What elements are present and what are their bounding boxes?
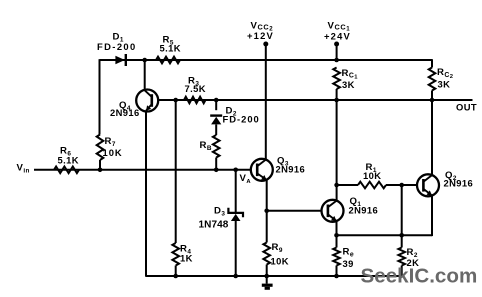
wire R9 bottom to rail	[266, 265, 268, 277]
label RC1	[342, 68, 359, 81]
wire RC1 bottom through OUT to R1 node and Q1 collector	[336, 89, 338, 200]
terminal Vcc1 +24V	[334, 42, 339, 47]
label D1	[113, 32, 124, 44]
label Vin	[17, 162, 30, 174]
wire top +24V rail	[100, 59, 433, 61]
wire Q3 emitter to Q1 base	[267, 210, 322, 212]
svg-text:2N916: 2N916	[276, 164, 306, 175]
junction R1 left / Q1 collector	[334, 183, 339, 188]
resistor RC2 3K	[429, 68, 436, 91]
junction R9 / ground on rail	[264, 274, 269, 279]
diode D1 FD-200	[115, 54, 125, 66]
junction R4 bottom rail	[173, 274, 178, 279]
wire D2 to R8	[215, 125, 217, 136]
wire RC2 bottom to OUT node	[431, 91, 433, 101]
wire D3 anode to bottom rail	[235, 221, 237, 276]
junction Re bottom rail	[334, 274, 339, 279]
transistor Q3 2N916	[251, 159, 273, 181]
junction OUT at Q2 collector	[430, 98, 435, 103]
wire R4 bottom to rail	[175, 266, 177, 277]
wire Q3 emitter lead	[266, 180, 268, 211]
svg-text:10K: 10K	[363, 170, 381, 181]
wire Re bottom to rail	[336, 266, 338, 277]
junction D2 on OUT line	[214, 98, 219, 103]
svg-text:10K: 10K	[103, 147, 123, 158]
resistor R3 7.5K	[184, 97, 206, 104]
label OUT	[456, 101, 477, 112]
svg-text:3K: 3K	[438, 79, 451, 90]
transistor Q1 2N916	[322, 200, 344, 222]
resistor R6 5.1K	[54, 167, 79, 174]
junction D1 cathode / Q4 collector / R5	[142, 58, 147, 63]
resistor R5 5.1K	[156, 57, 180, 64]
label R2	[407, 247, 418, 259]
wire R1 right to Q2 base	[386, 184, 417, 186]
label 2N916 (Q2)	[444, 178, 474, 189]
label R3	[188, 76, 199, 88]
resistor R2 2K	[398, 248, 405, 266]
wire OUT line (Q4 base to output)	[158, 99, 473, 101]
resistor RC1 3K	[333, 68, 340, 90]
junction Q1 emitter / emitter line	[334, 233, 339, 238]
zener diode D3 1N748	[228, 208, 243, 221]
svg-text:1K: 1K	[180, 252, 193, 263]
label 2N916 (Q1)	[349, 204, 379, 215]
wire R1 left lead	[337, 184, 358, 186]
junction Q3 emitter / Q1 base / R9	[264, 209, 269, 214]
svg-text:OUT: OUT	[456, 101, 477, 112]
wire Q2 collector lead	[431, 100, 433, 174]
wire RC2 top corner	[431, 59, 433, 67]
junction R2 on emitter line	[399, 233, 404, 238]
svg-text:+12V: +12V	[247, 30, 274, 41]
label 5.1K (R6)	[58, 154, 79, 165]
label 7.5K (R3)	[185, 83, 206, 94]
wire Q1/Q2 emitter line	[336, 234, 432, 236]
label R9	[272, 242, 283, 254]
label D2	[226, 106, 237, 118]
wire D2 anode drop	[215, 100, 217, 110]
label VA	[240, 173, 252, 185]
wire Q4 collector lead	[144, 60, 146, 91]
wire Q1 emitter lead	[336, 221, 338, 235]
junction VA node	[233, 168, 238, 173]
svg-text:39: 39	[343, 258, 354, 269]
label Q1	[350, 196, 362, 208]
wire Vin line	[34, 169, 251, 171]
resistor R1 10K	[358, 182, 386, 189]
svg-text:2N916: 2N916	[349, 204, 379, 215]
label RC2	[437, 67, 453, 80]
label Q2	[445, 170, 457, 182]
label 2K (R2)	[407, 257, 420, 268]
label 10K (R7)	[103, 147, 123, 158]
wire R1 node down to emitter line	[401, 185, 403, 248]
svg-text:1N748: 1N748	[199, 220, 229, 231]
label Q3	[277, 155, 289, 167]
label RB	[200, 140, 212, 152]
label 2N916 (Q3)	[276, 164, 306, 175]
terminal Vcc2 +12V	[263, 42, 268, 47]
wire Q2 emitter down	[431, 196, 433, 236]
label 1N748 (D3)	[199, 220, 229, 231]
label 3K (RC2)	[438, 79, 451, 90]
wire Q4 emitter to bottom rail	[145, 111, 147, 277]
junction Q4 base / R4	[173, 98, 178, 103]
svg-text:SeekIC.com: SeekIC.com	[361, 265, 478, 288]
transistor Q4 2N916	[136, 90, 158, 112]
wire R7 bottom to Vin node	[99, 160, 101, 171]
resistor Re 39	[333, 248, 340, 266]
ground	[262, 276, 273, 288]
wire Vcc1 stub	[336, 44, 338, 60]
transistor Q2 2N916	[417, 174, 439, 196]
resistor R7 10K	[97, 135, 104, 161]
svg-text:FD-200: FD-200	[223, 113, 260, 124]
label 39 (Re)	[343, 258, 354, 269]
junction R6 / R7 Vin node	[98, 168, 103, 173]
label +24V	[324, 30, 351, 41]
label R1	[366, 162, 377, 174]
junction R1 right / Q2 base / R2	[399, 183, 404, 188]
label 10K (R9)	[271, 255, 289, 266]
label R6	[60, 146, 71, 158]
wire Vcc2 to Q3 collector	[265, 44, 267, 160]
svg-text:7.5K: 7.5K	[185, 83, 206, 94]
wire Q1 emitter node to Re	[336, 235, 338, 247]
diode D2 FD-200	[210, 116, 222, 125]
resistor R9 10K	[263, 243, 270, 265]
junction R8 on Vin line	[214, 168, 219, 173]
wire VA node to D3	[235, 170, 237, 212]
resistor RB	[213, 135, 220, 158]
svg-text:5.1K: 5.1K	[58, 154, 79, 165]
label Vcc1	[328, 20, 351, 32]
wire bottom ground rail	[146, 275, 403, 277]
resistor R4 1K	[172, 243, 179, 266]
label R5	[163, 35, 174, 47]
label +12V	[247, 30, 274, 41]
svg-text:5.1K: 5.1K	[160, 43, 181, 54]
label R4	[180, 244, 191, 256]
label FD-200 (D2)	[223, 113, 260, 124]
wire R7 top to D1 anode	[99, 59, 101, 134]
label FD-200 (D1)	[97, 41, 137, 52]
junction D3 bottom rail	[233, 274, 238, 279]
label 10K (R1)	[363, 170, 381, 181]
svg-text:3K: 3K	[342, 79, 355, 90]
wire R8 bottom to Vin node	[215, 158, 217, 170]
label Q4	[119, 100, 131, 112]
label Vcc2	[251, 20, 274, 32]
watermark SeekIC.com	[361, 265, 478, 288]
wire Q3 emitter node to R9	[266, 211, 268, 243]
svg-text:+24V: +24V	[324, 30, 351, 41]
wire R4 branch (Q4 base node to ground rail)	[175, 100, 177, 243]
label 5.1K (R5)	[160, 43, 181, 54]
label 2N916 (Q4)	[110, 107, 140, 118]
svg-text:2N916: 2N916	[110, 107, 140, 118]
junction Vcc1 on +24V rail	[334, 58, 339, 63]
svg-text:10K: 10K	[271, 255, 289, 266]
svg-text:2N916: 2N916	[444, 178, 474, 189]
label 1K (R4)	[180, 252, 193, 263]
label Re	[343, 246, 355, 258]
label D3	[214, 206, 225, 218]
wire R2 bottom to rail end	[401, 266, 403, 277]
junction RC1 / OUT line crossing	[334, 98, 339, 103]
svg-text:FD-200: FD-200	[97, 41, 137, 52]
label R7	[105, 136, 116, 148]
label 3K (RC1)	[342, 79, 355, 90]
